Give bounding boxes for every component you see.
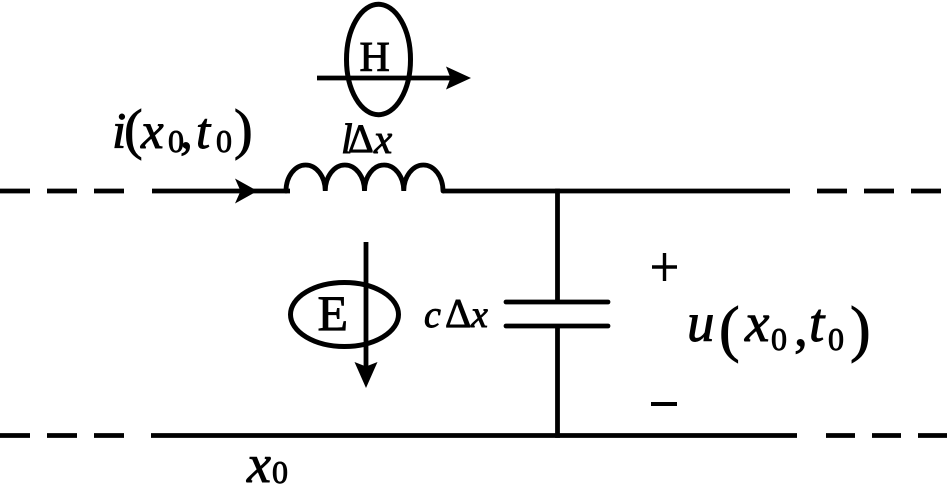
svg-text:x: x (470, 294, 488, 336)
svg-text:0: 0 (216, 123, 232, 159)
svg-text:): ) (850, 296, 871, 364)
magnetic field ellipse H (347, 4, 411, 114)
svg-text:x: x (140, 104, 164, 160)
svg-text:u: u (687, 292, 715, 353)
svg-text:0: 0 (272, 454, 288, 490)
svg-text:c: c (424, 294, 441, 336)
wire: top segment from inductor to node (443, 189, 790, 194)
svg-text:0: 0 (771, 321, 787, 357)
minus polarity mark (651, 402, 677, 406)
wire: capacitor bottom stem (555, 326, 560, 438)
svg-text:,: , (180, 104, 193, 160)
E field direction arrow (downward) (355, 242, 378, 388)
wire: capacitor top stem (555, 189, 560, 302)
svg-text:x: x (744, 292, 770, 353)
wire: bottom-right dashed lead (826, 433, 947, 438)
label u(x0,t0) (687, 292, 871, 364)
wire: top-left dashed lead (0, 189, 126, 194)
svg-text:,: , (794, 296, 808, 357)
capacitor C: bottom plate (506, 324, 608, 329)
label i(x0,t0) (112, 99, 253, 161)
capacitor value label cΔx (424, 290, 488, 336)
current direction arrowhead (235, 179, 258, 204)
node label x0 (246, 434, 288, 494)
svg-text:H: H (360, 35, 390, 81)
capacitor C: top plate (506, 300, 608, 305)
svg-text:): ) (234, 99, 253, 161)
svg-text:Δ: Δ (348, 116, 374, 161)
svg-text:(: ( (124, 99, 143, 161)
plus polarity mark (652, 253, 677, 281)
wire: top-left solid segment carrying current i (152, 189, 290, 194)
svg-text:t: t (809, 292, 826, 353)
svg-text:x: x (246, 434, 271, 494)
wire: bottom-left dashed lead (0, 433, 126, 438)
svg-text:0: 0 (828, 321, 844, 357)
inductor value label lΔx (341, 116, 392, 163)
svg-text:x: x (373, 116, 392, 162)
inductor L (l delta-x), 4 humps (286, 165, 443, 191)
wire: top-right dashed lead (817, 189, 943, 194)
svg-text:t: t (196, 104, 212, 160)
H field direction arrow (317, 67, 471, 90)
svg-text:(: ( (719, 296, 740, 364)
svg-text:Δ: Δ (445, 290, 471, 336)
wire: bottom solid conductor (151, 433, 797, 438)
svg-text:E: E (318, 285, 349, 341)
electric field ellipse E (291, 283, 399, 347)
